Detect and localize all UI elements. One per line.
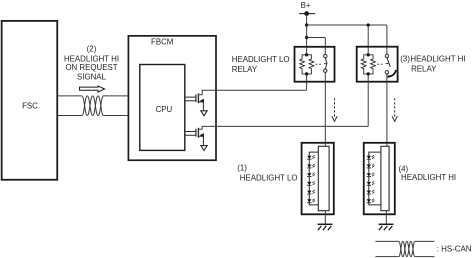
- relay K2 switch top contact circle: [385, 54, 388, 57]
- signal label (2) HEADLIGHT HI ON REQUEST SIGNAL: [64, 44, 119, 81]
- relay K1 coil right element: [307, 55, 314, 74]
- junction dot at HI relay coil feed: [367, 23, 370, 26]
- HS-CAN legend twisted pair (line B): [375, 241, 434, 256]
- headlight LO bulb element: [318, 146, 329, 210]
- junction dot B+ branch to HI relay: [305, 23, 308, 26]
- svg-text:RELAY: RELAY: [411, 65, 437, 74]
- relay K1 coil left element: [300, 55, 307, 74]
- svg-text:RELAY: RELAY: [232, 65, 258, 74]
- (1) HEADLIGHT LO label: [237, 164, 297, 183]
- relay K1 switch bottom contact circle: [324, 69, 327, 72]
- ground symbol below headlight HI: [379, 224, 394, 230]
- svg-text:FSC: FSC: [22, 102, 38, 111]
- svg-text:ON REQUEST: ON REQUEST: [65, 63, 117, 72]
- svg-text:HEADLIGHT HI: HEADLIGHT HI: [401, 173, 456, 182]
- MOSFET Q2 source arrow: [200, 133, 204, 137]
- wire K1 switch to headlight LO unit: [324, 72, 326, 146]
- relay K2 switch bottom contact circle: [385, 71, 388, 74]
- relay K1 HEADLIGHT LO RELAY box: [295, 47, 335, 82]
- svg-text:B+: B+: [301, 1, 311, 10]
- MOSFET Q1 (headlight LO driver) gate wires from CPU: [185, 97, 196, 101]
- wire headlight LO to ground: [324, 211, 326, 225]
- svg-text:(3): (3): [400, 55, 410, 64]
- svg-text:CPU: CPU: [156, 105, 173, 114]
- svg-text:HEADLIGHT LO: HEADLIGHT LO: [232, 55, 290, 64]
- signal direction block arrow: [80, 86, 105, 92]
- relay K2 coil bottom junction dot: [367, 72, 370, 75]
- MOSFET Q1 gate bar: [195, 94, 197, 102]
- (3) HEADLIGHT HI RELAY label: [400, 55, 465, 74]
- svg-text:FBCM: FBCM: [151, 38, 173, 47]
- relay K1 switch arm: [325, 58, 327, 69]
- headlight LO LED chain diodes: [307, 155, 315, 203]
- relay K1 arm tick: [324, 63, 327, 65]
- wire B+ branch to HI relay coil and switch: [307, 25, 387, 54]
- svg-text:(2): (2): [87, 44, 97, 53]
- MOSFET Q1 source arrow: [200, 99, 204, 103]
- internal ground triangle of Q2: [201, 146, 207, 151]
- relay K2 arm tick: [386, 62, 389, 64]
- wire Q1 drain to K1 coil: [198, 90, 306, 95]
- wire K2 coil bottom stub: [367, 76, 369, 127]
- MOSFET Q1 source wire: [198, 102, 203, 111]
- svg-text:HEADLIGHT HI: HEADLIGHT HI: [410, 55, 465, 64]
- internal ground triangle of Q1: [201, 111, 207, 116]
- FSC module box: [2, 21, 58, 180]
- MOSFET Q2 gate bar: [195, 129, 197, 137]
- svg-text:HEADLIGHT LO: HEADLIGHT LO: [240, 174, 298, 183]
- relay K2 switch arm (thrown): [387, 58, 390, 67]
- wire K2 switch to headlight HI unit: [386, 74, 388, 146]
- ground symbol below headlight LO: [318, 224, 333, 230]
- HS-CAN twisted pair wire FSC to FBCM (line B): [58, 96, 129, 116]
- wire headlight HI to ground: [385, 211, 387, 225]
- headlight HI bulb element: [381, 146, 389, 210]
- FBCM module box: [128, 36, 216, 160]
- dashed current flow arrow below K2: [394, 98, 396, 117]
- svg-text:(1): (1): [237, 164, 247, 173]
- MOSFET Q2 source wire: [198, 136, 203, 145]
- headlight HI unit E2 box: [364, 143, 395, 215]
- HS-CAN legend twisted pair (line A): [375, 241, 434, 256]
- relay K1 actuation dashed link: [316, 63, 323, 65]
- relay K2 actuation dashed link: [377, 63, 384, 65]
- wire B+ down to LO relay coil: [306, 14, 308, 54]
- headlight HI LED chain wire: [369, 152, 381, 205]
- headlight LO LED chain wire: [309, 152, 318, 205]
- svg-text:SIGNAL: SIGNAL: [77, 72, 107, 81]
- B+ terminal dot: [304, 11, 309, 16]
- relay K2 HEADLIGHT HI RELAY box: [357, 47, 398, 82]
- B+ terminal bar: [299, 13, 315, 15]
- relay K2 moving contact arrowhead: [386, 75, 390, 78]
- svg-text:: HS-CAN: : HS-CAN: [437, 245, 472, 254]
- relay K1 coil top junction dot: [305, 53, 308, 56]
- wire K1 coil bottom stub: [306, 76, 308, 91]
- wire Q2 drain to K2 coil: [198, 126, 368, 129]
- MOSFET Q2 (headlight HI driver) gate wires from CPU: [185, 132, 196, 136]
- MOSFET Q2 channel bar: [197, 128, 199, 138]
- HEADLIGHT LO RELAY label: [232, 55, 290, 74]
- CPU box U1: [140, 65, 185, 151]
- relay K2 moving contact arc: [389, 70, 396, 77]
- MOSFET Q1 channel bar: [197, 93, 199, 103]
- relay K2 coil left element: [361, 55, 368, 74]
- dashed current flow arrow below K1: [334, 98, 336, 117]
- headlight LO unit E1 box: [302, 143, 334, 215]
- wire B+ branch to LO relay switch: [307, 38, 326, 55]
- relay K2 coil top junction dot: [367, 53, 370, 56]
- relay K1 switch top contact circle: [324, 54, 327, 57]
- junction dot B+ branch to LO switch: [305, 36, 308, 39]
- (4) HEADLIGHT HI label: [399, 164, 457, 182]
- headlight HI LED chain diodes: [367, 155, 375, 203]
- HS-CAN twisted pair wire FSC to FBCM (line A): [58, 96, 129, 116]
- relay K1 coil bottom junction dot: [305, 72, 308, 75]
- relay K2 coil right element: [368, 55, 375, 74]
